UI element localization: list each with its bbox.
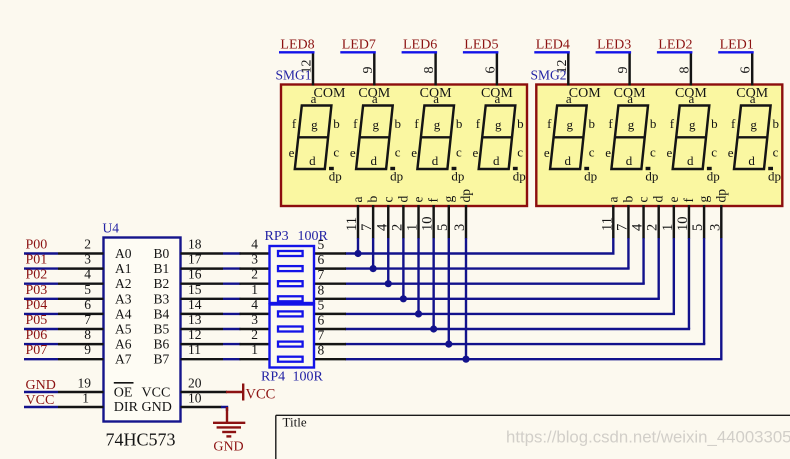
SMG2 pin dp (3)	[707, 189, 728, 239]
svg-text:17: 17	[188, 252, 202, 267]
svg-text:c: c	[517, 145, 523, 160]
7-seg digit glyph SMG1 digit 1	[289, 91, 342, 184]
svg-text:6: 6	[739, 67, 754, 74]
svg-text:7: 7	[614, 224, 630, 231]
svg-text:74HC573: 74HC573	[106, 430, 176, 450]
resistor network RP4 body	[270, 305, 315, 368]
RP4 pin 3	[240, 312, 270, 329]
svg-text:g: g	[750, 117, 757, 132]
svg-text:4: 4	[374, 223, 390, 231]
pin COM (8) of SMG2 digit 3	[675, 54, 707, 102]
RP3 pin 5	[314, 237, 346, 254]
svg-text:A2: A2	[115, 276, 132, 291]
wire: bus row 1 from RP output to SMG2 pin a	[345, 252, 615, 254]
svg-text:c: c	[636, 197, 651, 203]
SMG2 pin a (11)	[599, 197, 620, 239]
svg-text:A6: A6	[115, 337, 132, 352]
svg-text:d: d	[432, 153, 439, 168]
svg-text:1: 1	[405, 224, 421, 231]
resistor network RP3 body	[270, 246, 315, 303]
net label GND (left)	[24, 378, 58, 393]
U4 pin A2 (4)	[58, 267, 132, 292]
RP4 pin 8	[314, 343, 346, 360]
svg-text:COM: COM	[614, 86, 646, 101]
net label VCC (left)	[24, 393, 58, 408]
svg-text:B3: B3	[154, 291, 170, 306]
svg-text:LED6: LED6	[403, 37, 437, 52]
wire: U4 B4 to RP4	[223, 313, 241, 315]
svg-text:c: c	[456, 145, 462, 160]
resistor element RP4.1	[278, 311, 303, 316]
U4 pin VCC (20)	[142, 376, 228, 401]
svg-text:P01: P01	[26, 253, 48, 268]
svg-text:COM: COM	[736, 86, 768, 101]
wire: U4 pin 10 corner to ground	[221, 407, 227, 411]
SMG2 pin f (10)	[675, 198, 696, 239]
wire: SMG1 pin f down to bus row 6	[432, 238, 434, 329]
svg-text:3: 3	[251, 312, 258, 327]
svg-text:e: e	[473, 145, 479, 160]
svg-text:RP4: RP4	[261, 370, 285, 385]
svg-text:d: d	[564, 153, 571, 168]
svg-text:OE: OE	[114, 385, 133, 400]
svg-text:b: b	[365, 196, 380, 203]
svg-text:b: b	[333, 116, 340, 131]
svg-text:5: 5	[690, 224, 706, 231]
wire: SMG2 pin e down to bus row 5	[673, 238, 675, 314]
pin COM (8) of SMG1 digit 3	[420, 54, 452, 102]
svg-text:g: g	[696, 196, 711, 203]
wire: SMG1 pin g down to bus row 7	[448, 238, 450, 344]
RP3 pin 2	[240, 267, 270, 284]
svg-text:10: 10	[420, 217, 436, 232]
SMG1 pin a (11)	[344, 197, 365, 239]
svg-text:b: b	[772, 116, 779, 131]
RP4 pin 6	[314, 313, 346, 330]
SMG1 pin b (7)	[359, 196, 380, 239]
U4 pin B5 (13)	[154, 312, 224, 337]
7-seg digit glyph SMG1 digit 2	[350, 91, 403, 184]
junction dot at SMG1 dp / row 8	[462, 356, 469, 363]
SMG1 pin c (4)	[374, 197, 395, 239]
svg-text:GND: GND	[26, 378, 56, 393]
svg-text:f: f	[353, 116, 358, 131]
RP4 pin 7	[314, 328, 346, 345]
wire: U4 B5 to RP4	[223, 328, 241, 330]
U4 pin OE (19)	[58, 376, 134, 401]
svg-text:7: 7	[359, 224, 375, 231]
SMG1 pin dp (3)	[452, 189, 473, 239]
7-seg digit glyph SMG1 digit 3	[411, 91, 464, 184]
wire: SMG1 pin e down to bus row 5	[417, 238, 419, 314]
svg-text:1: 1	[82, 391, 89, 406]
7-seg digit glyph SMG1 digit 4	[473, 91, 526, 184]
svg-text:5: 5	[435, 224, 451, 231]
svg-text:A3: A3	[115, 291, 132, 306]
svg-text:12: 12	[300, 60, 315, 74]
svg-text:f: f	[731, 116, 736, 131]
svg-text:B2: B2	[154, 276, 170, 291]
wire: SMG2 pin b down to bus row 2	[627, 238, 629, 269]
junction dot at SMG1 b / row 2	[370, 265, 377, 272]
svg-text:dp: dp	[513, 169, 526, 184]
svg-text:P03: P03	[26, 283, 48, 298]
svg-text:20: 20	[188, 376, 202, 391]
SMG2 pin g (5)	[690, 196, 711, 239]
U4 pin A3 (5)	[58, 282, 132, 307]
net label P06	[24, 328, 58, 344]
pin COM (6) of SMG2 digit 4	[736, 54, 768, 102]
svg-text:f: f	[414, 116, 419, 131]
RP3 pin 6	[314, 252, 346, 269]
svg-text:LED8: LED8	[280, 37, 314, 52]
net label LED2	[657, 37, 693, 52]
svg-text:COM: COM	[481, 86, 513, 101]
svg-text:100R: 100R	[298, 229, 329, 244]
svg-text:B4: B4	[154, 306, 170, 321]
svg-text:6: 6	[483, 67, 498, 74]
svg-text:COM: COM	[420, 86, 452, 101]
svg-text:e: e	[411, 145, 417, 160]
svg-text:U4: U4	[103, 221, 120, 236]
RP3 pin 4	[240, 237, 270, 254]
svg-text:B7: B7	[154, 352, 170, 367]
svg-text:12: 12	[555, 60, 570, 74]
svg-text:7: 7	[318, 267, 325, 282]
svg-text:4: 4	[84, 267, 91, 282]
wire: bus row 8 from RP output to SMG2 pin dp	[345, 358, 723, 360]
net label LED7	[340, 37, 376, 52]
net label LED3	[596, 37, 632, 52]
wire: U4 B2 to RP3	[223, 283, 241, 285]
svg-text:8: 8	[422, 67, 437, 74]
net label P03	[24, 283, 58, 299]
7-segment display module SMG2 body	[536, 85, 782, 207]
resistor element RP4.3	[278, 342, 303, 347]
svg-text:dp: dp	[645, 169, 658, 184]
pin COM (9) of SMG2 digit 2	[614, 54, 646, 102]
svg-text:GND: GND	[142, 400, 172, 415]
svg-text:e: e	[289, 145, 295, 160]
junction dot at SMG1 f / row 6	[430, 325, 437, 332]
junction dot at SMG1 d / row 4	[400, 295, 407, 302]
U4 pin A7 (9)	[58, 342, 132, 367]
svg-text:B0: B0	[154, 246, 170, 261]
U4 pin B7 (11)	[154, 342, 224, 367]
svg-text:B6: B6	[154, 337, 170, 352]
wire: SMG2 pin c down to bus row 3	[642, 238, 644, 284]
svg-text:LED3: LED3	[597, 37, 631, 52]
svg-text:LED2: LED2	[658, 37, 692, 52]
SMG2 pin c (4)	[630, 197, 651, 239]
wire: U4 B0 to RP3	[223, 252, 241, 254]
resistor element RP3.1	[278, 251, 303, 256]
svg-text:COM: COM	[314, 86, 346, 101]
wire: U4 B6 to RP4	[223, 343, 241, 345]
svg-text:8: 8	[318, 343, 325, 358]
svg-text:3: 3	[707, 224, 723, 231]
svg-text:f: f	[608, 116, 613, 131]
svg-text:7: 7	[318, 328, 325, 343]
svg-text:15: 15	[188, 282, 202, 297]
svg-text:f: f	[426, 198, 441, 203]
RP3 pin 1	[240, 282, 270, 299]
svg-text:B5: B5	[154, 322, 170, 337]
svg-text:LED1: LED1	[720, 37, 754, 52]
junction dot at SMG1 c / row 3	[385, 280, 392, 287]
svg-text:DIR: DIR	[114, 400, 139, 415]
svg-text:dp: dp	[713, 189, 728, 203]
svg-text:A1: A1	[115, 261, 132, 276]
svg-text:3: 3	[84, 252, 91, 267]
RP3 pin 8	[314, 282, 346, 299]
svg-text:1: 1	[660, 224, 676, 231]
svg-text:6: 6	[84, 297, 91, 312]
RP4 pin 5	[314, 297, 346, 314]
svg-text:dp: dp	[390, 169, 403, 184]
RP3 pin 7	[314, 267, 346, 284]
wire: SMG2 pin a down to bus row 1	[612, 238, 614, 254]
svg-text:2: 2	[251, 267, 258, 282]
resistor element RP4.4	[278, 357, 303, 362]
svg-text:e: e	[411, 197, 426, 203]
svg-text:dp: dp	[768, 169, 781, 184]
RP3 pin 3	[240, 252, 270, 269]
svg-text:f: f	[670, 116, 675, 131]
svg-text:b: b	[650, 116, 657, 131]
resistor element RP4.2	[278, 327, 303, 332]
resistor element RP3.3	[278, 281, 303, 286]
svg-text:P02: P02	[26, 268, 48, 283]
svg-text:dp: dp	[329, 169, 342, 184]
svg-text:LED7: LED7	[342, 37, 376, 52]
net label P02	[24, 268, 58, 284]
svg-text:g: g	[311, 117, 318, 132]
svg-text:A5: A5	[115, 322, 132, 337]
7-segment display module SMG1 body	[281, 85, 527, 207]
svg-text:d: d	[395, 196, 410, 203]
svg-text:g: g	[628, 117, 635, 132]
U4 pin B0 (18)	[154, 237, 224, 262]
svg-text:8: 8	[318, 282, 325, 297]
7-seg digit glyph SMG2 digit 3	[667, 91, 720, 184]
U4 pin B3 (15)	[154, 282, 224, 307]
svg-text:c: c	[650, 145, 656, 160]
svg-text:8: 8	[677, 67, 692, 74]
svg-text:VCC: VCC	[246, 386, 276, 402]
svg-text:2: 2	[251, 327, 258, 342]
svg-text:dp: dp	[707, 169, 720, 184]
svg-text:dp: dp	[458, 189, 473, 203]
svg-text:d: d	[309, 153, 316, 168]
wire: SMG1 pin b down to bus row 2	[372, 238, 374, 269]
pin COM (12) of SMG2 digit 1	[555, 54, 601, 102]
svg-text:A4: A4	[115, 306, 132, 321]
svg-text:11: 11	[599, 217, 615, 231]
svg-text:e: e	[728, 145, 734, 160]
svg-text:c: c	[589, 145, 595, 160]
net label P00	[24, 238, 58, 254]
SMG1 pin e (1)	[405, 197, 426, 239]
svg-text:c: c	[395, 145, 401, 160]
U4 pin A5 (7)	[58, 312, 132, 337]
U4 pin A4 (6)	[58, 297, 132, 322]
svg-text:1: 1	[251, 282, 258, 297]
resistor element RP3.2	[278, 266, 303, 271]
wire: SMG1 pin c down to bus row 3	[387, 238, 389, 284]
svg-text:4: 4	[251, 297, 258, 312]
svg-text:b: b	[395, 116, 402, 131]
svg-text:P00: P00	[26, 238, 48, 253]
wire: bus row 5 from RP output to SMG2 pin e	[345, 313, 675, 315]
svg-text:100R: 100R	[293, 370, 324, 385]
svg-text:a: a	[350, 197, 365, 203]
svg-text:2: 2	[389, 224, 405, 231]
svg-text:10: 10	[188, 391, 202, 406]
svg-text:A7: A7	[115, 352, 132, 367]
svg-text:11: 11	[188, 342, 201, 357]
svg-text:f: f	[476, 116, 481, 131]
svg-text:e: e	[605, 145, 611, 160]
svg-text:LED4: LED4	[536, 37, 570, 52]
7-seg digit glyph SMG2 digit 1	[544, 91, 597, 184]
U4 pin GND (10)	[142, 391, 222, 415]
svg-text:4: 4	[251, 237, 258, 252]
SMG2 pin b (7)	[614, 196, 635, 239]
power port VCC	[226, 384, 275, 403]
svg-text:b: b	[589, 116, 596, 131]
RP4 pin 1	[240, 342, 270, 359]
svg-text:d: d	[493, 153, 500, 168]
svg-text:P04: P04	[26, 298, 48, 313]
svg-text:2: 2	[645, 224, 661, 231]
svg-text:e: e	[667, 145, 673, 160]
svg-text:b: b	[711, 116, 718, 131]
title block border	[276, 415, 790, 459]
net label LED4	[534, 37, 570, 52]
pin COM (12) of SMG1 digit 1	[300, 54, 346, 102]
net label P05	[24, 313, 58, 329]
svg-text:4: 4	[630, 223, 646, 231]
svg-text:COM: COM	[358, 86, 390, 101]
svg-text:P05: P05	[26, 313, 48, 328]
wire: U4 B7 to RP4	[223, 358, 241, 360]
svg-text:13: 13	[188, 312, 202, 327]
junction dot at SMG1 e / row 5	[415, 310, 422, 317]
svg-text:6: 6	[318, 252, 325, 267]
net label P07	[24, 343, 58, 359]
svg-text:c: c	[380, 197, 395, 203]
svg-text:GND: GND	[213, 440, 243, 455]
svg-text:5: 5	[84, 282, 91, 297]
svg-text:d: d	[687, 153, 694, 168]
svg-text:7: 7	[84, 312, 91, 327]
wire: bus row 7 from RP output to SMG2 pin g	[345, 343, 705, 345]
wire: bus row 2 from RP output to SMG2 pin b	[345, 267, 630, 269]
wire: SMG2 pin d down to bus row 4	[657, 238, 659, 299]
wire: SMG1 pin d down to bus row 4	[402, 238, 404, 299]
svg-text:c: c	[773, 145, 779, 160]
svg-text:f: f	[292, 116, 297, 131]
svg-text:19: 19	[78, 376, 92, 391]
svg-text:b: b	[620, 196, 635, 203]
svg-text:12: 12	[188, 327, 202, 342]
svg-text:d: d	[626, 153, 633, 168]
svg-text:g: g	[566, 117, 573, 132]
svg-text:e: e	[350, 145, 356, 160]
svg-text:d: d	[370, 153, 377, 168]
svg-text:14: 14	[188, 297, 202, 312]
svg-text:LED5: LED5	[464, 37, 498, 52]
U4 pin B6 (12)	[154, 327, 224, 352]
wire: bus row 3 from RP output to SMG2 pin c	[345, 283, 645, 285]
junction dot at SMG1 a / row 1	[354, 250, 361, 257]
RP4 pin 4	[240, 297, 270, 314]
wire: SMG2 pin f down to bus row 6	[688, 238, 690, 329]
net label LED6	[402, 37, 438, 52]
wire: SMG2 pin dp down to bus row 8	[720, 238, 722, 359]
svg-text:10: 10	[675, 217, 691, 232]
svg-text:P07: P07	[26, 343, 48, 358]
svg-text:f: f	[547, 116, 552, 131]
ground symbol GND	[213, 407, 245, 455]
svg-text:COM: COM	[569, 86, 601, 101]
SMG2 pin e (1)	[660, 197, 681, 239]
U4 pin B1 (17)	[154, 252, 224, 277]
net label P04	[24, 298, 58, 314]
svg-text:c: c	[333, 145, 339, 160]
pin COM (6) of SMG1 digit 4	[481, 54, 513, 102]
svg-text:3: 3	[452, 224, 468, 231]
wire: U4 B1 to RP3	[223, 267, 241, 269]
wire: bus row 6 from RP output to SMG2 pin f	[345, 328, 690, 330]
net label P01	[24, 253, 58, 269]
svg-text:g: g	[689, 117, 696, 132]
svg-text:3: 3	[251, 252, 258, 267]
svg-text:e: e	[666, 197, 681, 203]
svg-text:dp: dp	[584, 169, 597, 184]
svg-text:P06: P06	[26, 328, 48, 343]
U4 pin A6 (8)	[58, 327, 132, 352]
svg-text:5: 5	[318, 297, 325, 312]
svg-text:COM: COM	[675, 86, 707, 101]
svg-text:18: 18	[188, 237, 202, 252]
SMG1 pin g (5)	[435, 196, 456, 239]
svg-text:b: b	[517, 116, 524, 131]
U4 pin B4 (14)	[154, 297, 224, 322]
svg-text:VCC: VCC	[142, 385, 171, 400]
wire: SMG1 pin dp down to bus row 8	[465, 238, 467, 359]
SMG1 pin d (2)	[389, 196, 410, 239]
wire: SMG1 pin a down to bus row 1	[357, 238, 359, 254]
svg-text:g: g	[495, 117, 502, 132]
net label LED8	[279, 37, 315, 52]
svg-text:c: c	[711, 145, 717, 160]
IC U4 74HC573 body	[104, 238, 181, 422]
7-seg digit glyph SMG2 digit 4	[728, 91, 781, 184]
net label LED1	[718, 37, 754, 52]
U4 pin DIR (1)	[58, 391, 139, 415]
svg-text:1: 1	[251, 342, 258, 357]
pin COM (9) of SMG1 digit 2	[358, 54, 390, 102]
svg-text:d: d	[651, 196, 666, 203]
svg-text:d: d	[748, 153, 755, 168]
svg-text:9: 9	[616, 67, 631, 74]
svg-text:11: 11	[344, 217, 360, 231]
wire: bus row 4 from RP output to SMG2 pin d	[345, 298, 660, 300]
7-seg digit glyph SMG2 digit 2	[605, 91, 658, 184]
svg-text:https://blog.csdn.net/weixin_4: https://blog.csdn.net/weixin_44003305	[506, 428, 790, 447]
